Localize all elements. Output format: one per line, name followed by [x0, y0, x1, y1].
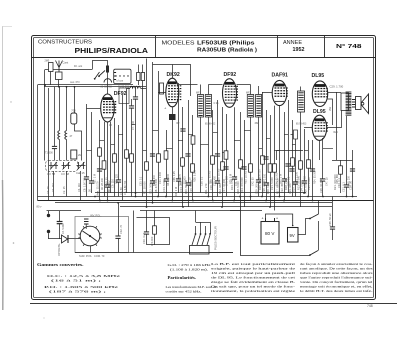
svg-text:de DL 95. Le fonctionnement: de DL 95. Le fonctionnement de cet — [211, 276, 295, 280]
svg-text:SUR. POS.: SUR. POS. — [79, 254, 92, 258]
svg-text:CV. 58: CV. 58 — [61, 172, 69, 176]
junction dot extra 5 — [221, 206, 223, 208]
svg-text:DK92: DK92 — [167, 72, 180, 78]
wire link 2 y140 — [100, 140, 105, 142]
header divider 2 — [277, 36, 279, 58]
svg-text:1952: 1952 — [293, 47, 305, 53]
svg-text:C3. 15: C3. 15 — [46, 186, 50, 194]
wire x133 down — [133, 211, 135, 253]
wire link 16 y148 — [259, 148, 262, 150]
capacitor CX9 — [350, 169, 355, 171]
wire x152 vertical — [150, 62, 155, 203]
svg-text:T1.600: T1.600 — [45, 152, 53, 155]
svg-text:2M: 2M — [78, 153, 82, 157]
wire T2s down — [256, 117, 261, 197]
wire tube6 grid left — [304, 127, 312, 129]
wire osc coil right stub — [140, 88, 146, 90]
wire CV1 down — [53, 171, 55, 197]
junction x135 y196 — [135, 196, 137, 198]
svg-text:C45. 0,1: C45. 0,1 — [287, 176, 290, 186]
wire x333 down right — [330, 197, 335, 241]
wire rail extension — [130, 86, 146, 88]
wire battery top link — [266, 214, 293, 226]
wire x99 vertical — [98, 120, 102, 201]
coil unit box — [114, 69, 131, 83]
wire x86 vertical — [84, 104, 89, 197]
wire x213 vertical — [211, 110, 215, 201]
header divider 1 — [155, 36, 157, 58]
wire switch right link — [209, 252, 233, 254]
svg-text:Fil. ant: Fil. ant — [74, 64, 82, 68]
wire x114 vertical — [113, 118, 117, 197]
svg-text:C6. 50: C6. 50 — [119, 187, 123, 195]
wire x178 vertical — [176, 83, 181, 193]
tube V4 DAF91 — [272, 73, 289, 106]
inner frame border — [34, 38, 374, 298]
resistor RX8 — [299, 161, 303, 169]
trimmer stack above commutator — [84, 219, 89, 229]
wire link 11 y145 — [201, 144, 209, 146]
wire contact4 up — [210, 222, 212, 234]
wire pot down — [293, 139, 298, 197]
capacitor CX11 — [223, 167, 228, 169]
svg-text:DF92: DF92 — [114, 91, 127, 97]
tuning gang CV dashed box — [46, 160, 78, 171]
svg-text:R8. 15.000: R8. 15.000 — [167, 173, 170, 186]
svg-text:19 cm est attaqué par un: 19 cm est attaqué par un push-pull — [211, 271, 295, 275]
switch contact x200 — [200, 233, 202, 235]
wire T3 top stub — [300, 87, 302, 92]
junction x166 y196 — [165, 196, 167, 198]
resistor RX7 — [268, 164, 272, 172]
wire tube5 screen down — [328, 99, 333, 125]
svg-text:80.98.304: 80.98.304 — [153, 175, 156, 186]
svg-text:tubes reproduit une alterna: tubes reproduit une alternance alors — [300, 271, 373, 275]
svg-text:C37. 25: C37. 25 — [189, 177, 192, 186]
junction x45 y85 — [44, 84, 46, 86]
switch contact x205 — [205, 233, 207, 235]
svg-text:Particularités.: Particularités. — [168, 275, 197, 280]
svg-text:C29. 1.700: C29. 1.700 — [330, 84, 344, 88]
wire T2p top — [250, 85, 252, 95]
wire contact1 up — [195, 226, 197, 234]
wire CT1 down — [80, 171, 82, 201]
wire x55 vertical — [52, 87, 57, 161]
svg-text:C35. 50 uF: C35. 50 uF — [328, 213, 332, 226]
wire x48 vertical — [48, 88, 50, 201]
svg-text:OXYMETAL: OXYMETAL — [58, 242, 61, 256]
svg-text:C9. 110: C9. 110 — [110, 179, 114, 188]
svg-text:R26. 5.000: R26. 5.000 — [194, 169, 197, 182]
svg-text:CONSTRUCTEURS: CONSTRUCTEURS — [38, 40, 92, 46]
svg-text:étage se fait évidemment en cl: étage se fait évidemment en classe B. — [211, 280, 295, 284]
band switch S1 arms — [94, 71, 105, 80]
junction dot extra 13 — [146, 206, 148, 208]
junction x208 y196 — [208, 196, 210, 198]
wire link 13 y152 — [222, 152, 226, 154]
wire diode right — [68, 238, 80, 240]
wire x352 right vertical — [352, 150, 354, 197]
wire T1 to tube3 — [208, 84, 222, 86]
junction x266 y200 — [265, 200, 267, 202]
scan speck 2 — [13, 242, 15, 244]
svg-text:COM. 70: COM. 70 — [94, 254, 105, 258]
svg-text:R36. 120: R36. 120 — [115, 173, 118, 184]
wire osc tap down — [133, 88, 138, 197]
page top edge — [3, 26, 13, 28]
trimmer CT1 — [77, 162, 86, 170]
junction dot extra 1 — [135, 192, 137, 194]
wire contact3 up — [205, 226, 207, 234]
output transformer OT — [341, 92, 351, 115]
wire x312 vertical — [312, 140, 314, 201]
wire bus y210 — [140, 210, 262, 212]
svg-text:R30. 25.000: R30. 25.000 — [244, 170, 247, 184]
wire link 12 y132 — [213, 132, 218, 134]
wire link 8 y148 — [166, 148, 172, 150]
svg-text:C49. 50: C49. 50 — [105, 177, 108, 186]
capacitor CX12 — [289, 169, 294, 171]
wire x308 vertical — [307, 140, 311, 197]
svg-text:1R: 1R — [109, 125, 112, 127]
svg-text:R24: R24 — [334, 132, 339, 134]
wire left bus x37 vertical — [37, 85, 39, 201]
junction x95 y196 — [94, 196, 96, 198]
svg-text:DL95: DL95 — [313, 109, 326, 115]
junction x352 y196 — [352, 196, 354, 198]
svg-text:700: 700 — [71, 109, 76, 113]
junction x346 y196 — [346, 196, 348, 198]
wire tube2 cathode down — [172, 107, 174, 201]
junction x234 y200 — [233, 200, 235, 202]
junction dot extra 6 — [239, 196, 241, 198]
svg-text:52.500: 52.500 — [184, 176, 187, 184]
wire T2p down — [250, 117, 252, 201]
resistor R1 700 — [71, 109, 77, 125]
switch contact x210 — [209, 233, 211, 235]
wire tube1 grid cap lead — [93, 61, 108, 95]
rectifier diode D1 — [62, 235, 69, 243]
wire x323 vertical — [320, 138, 325, 197]
wire commutator down — [90, 246, 92, 253]
wire x304 vertical — [302, 129, 307, 193]
svg-text:C44. 10.000: C44. 10.000 — [275, 172, 278, 186]
wire link 15 y130 — [244, 130, 251, 132]
chassis box around commutator — [75, 217, 129, 253]
wire tube2 grid left wire — [158, 92, 166, 94]
wire link 4 y135 — [119, 134, 124, 136]
svg-text:P.O. : 1.605 à 500 kHz: P.O. : 1.605 à 500 kHz — [44, 285, 119, 289]
junction dot extra 4 — [212, 200, 214, 202]
wire x146 vertical — [145, 59, 149, 208]
junction dot extra 7 — [261, 196, 263, 198]
wire x155 down — [153, 211, 157, 246]
junction x172 y200 — [171, 200, 173, 202]
wire link 7 y130 — [153, 130, 159, 132]
wire switch top rail — [196, 222, 211, 224]
wire battery loop left-bottom — [241, 197, 311, 256]
junction x312 y200 — [312, 200, 314, 202]
svg-text:(1.100 à 1.820 m).: (1.100 à 1.820 m). — [170, 267, 208, 271]
wire y151 link — [276, 150, 303, 152]
junction dot extra 3 — [182, 206, 184, 208]
svg-text:R32. 1 M: R32. 1 M — [279, 174, 282, 184]
junction dot extra 8 — [269, 206, 271, 208]
antenna leak resistor 2M5 — [45, 60, 54, 72]
resistor R6 — [141, 73, 144, 81]
junction x250 y196 — [250, 196, 252, 198]
switch contact x195 — [195, 233, 197, 235]
svg-text:R34. 50.000: R34. 50.000 — [313, 170, 316, 184]
svg-text:C41. 0,5: C41. 0,5 — [235, 176, 238, 186]
wire x217 vertical — [215, 100, 220, 197]
capacitor CX1 — [97, 169, 102, 171]
svg-text:C43. 2.000: C43. 2.000 — [263, 173, 266, 186]
wire T1s top — [208, 85, 210, 95]
junction x107 y200 — [107, 200, 109, 202]
svg-text:uf cos: uf cos — [117, 80, 124, 83]
wire link 21 y150 — [304, 150, 308, 152]
svg-text:C36. 0,25: C36. 0,25 — [173, 171, 176, 182]
wire hop arc — [104, 79, 112, 83]
svg-text:INV. POL.: INV. POL. — [90, 213, 102, 217]
page left edge — [2, 26, 4, 180]
wire T2s top stub — [258, 86, 260, 95]
svg-text:C4. 5.000: C4. 5.000 — [62, 223, 65, 234]
wire x262 vertical — [261, 92, 265, 197]
svg-text:R29. 3 M: R29. 3 M — [229, 174, 232, 184]
svg-text:R25. 3.300: R25. 3.300 — [179, 173, 182, 186]
svg-text:(187 à 576 m) ;: (187 à 576 m) ; — [49, 290, 106, 294]
wire C31 down — [118, 238, 120, 252]
tuning capacitor section CV1 — [49, 162, 58, 170]
svg-text:MF1: MF1 — [196, 92, 201, 95]
svg-text:PILES-SECTEUR: PILES-SECTEUR — [214, 225, 218, 250]
header bottom rule — [32, 57, 376, 59]
svg-text:C1. 110: C1. 110 — [51, 183, 55, 192]
svg-text:que l'autre reproduit l'altern: que l'autre reproduit l'alternance sui- — [300, 276, 373, 280]
wire OT down — [344, 116, 349, 197]
wire bus y193 — [95, 192, 306, 194]
volume potentiometer P1 — [291, 130, 298, 139]
svg-text:MODELES: MODELES — [162, 41, 196, 47]
wire bus to battery left — [230, 210, 240, 212]
wire x59 tuned circuit vertical — [58, 87, 60, 161]
switch lever right bottom — [310, 251, 318, 256]
svg-text:748: 748 — [367, 304, 373, 308]
resistor RX3 — [164, 151, 168, 159]
resistor RX4 — [191, 136, 195, 144]
svg-text:80 v: 80 v — [37, 205, 43, 209]
wire x276 stub down — [276, 151, 278, 160]
wire x288 vertical — [288, 100, 290, 193]
wire x166 vertical — [164, 130, 169, 197]
lever pivot bottom — [309, 254, 311, 256]
wire right lever2 up — [318, 221, 320, 251]
svg-text:81-58-301: 81-58-301 — [118, 86, 130, 89]
wire bottom y252 left — [75, 252, 233, 254]
svg-text:C46. 450: C46. 450 — [303, 175, 306, 186]
wire x131 vertical — [129, 99, 134, 197]
svg-text:R35. 680: R35. 680 — [336, 173, 339, 184]
wire switch rail up — [195, 211, 197, 223]
junction dot extra 14 — [152, 202, 154, 204]
wire x305 up right — [306, 219, 311, 236]
svg-text:80 V: 80 V — [265, 231, 275, 236]
wire y160 right horizontal — [332, 160, 353, 162]
wire x91 vertical — [89, 112, 94, 193]
svg-text:R27. 50.000: R27. 50.000 — [208, 170, 211, 184]
wire tube2 top — [172, 65, 174, 79]
svg-text:DAF91: DAF91 — [272, 73, 289, 79]
capacitor CX10 — [185, 154, 190, 156]
wire jack1 horizontal y211 — [47, 210, 82, 212]
wire y85 horizontal rail — [38, 84, 134, 86]
svg-text:+: + — [262, 217, 264, 221]
wire x123 vertical — [122, 95, 124, 201]
svg-text:C25. 2.200: C25. 2.200 — [307, 177, 311, 190]
resistor RX5 — [224, 151, 228, 159]
svg-text:osc. PO: osc. PO — [70, 80, 80, 84]
wire link 1 y150 — [87, 150, 92, 152]
svg-text:C2. 15: C2. 15 — [62, 186, 66, 194]
wire x274 vertical — [273, 106, 277, 211]
wire tube4 down — [279, 106, 281, 197]
wire x292 vertical — [291, 120, 295, 197]
wire top y62 to x190 down — [153, 65, 191, 97]
svg-text:R37. 1 M: R37. 1 M — [93, 174, 96, 184]
wire antenna top horizontal — [45, 69, 92, 71]
wire right lever up — [318, 201, 320, 215]
svg-text:80-98-458: 80-98-458 — [101, 86, 113, 89]
svg-text:3W: 3W — [328, 106, 332, 111]
capacitor CX6 — [263, 157, 268, 159]
svg-text:Gammes couvertes.: Gammes couvertes. — [37, 262, 84, 267]
svg-text:9V: 9V — [290, 233, 295, 238]
speaker coupling winding — [352, 100, 356, 108]
svg-text:C48. 200: C48. 200 — [347, 175, 350, 186]
loudspeaker LS — [356, 94, 369, 114]
svg-text:C13. 5.000: C13. 5.000 — [162, 179, 166, 192]
wire R6 top — [142, 65, 144, 73]
pickup jack J2 — [47, 230, 50, 239]
outer frame border — [32, 36, 376, 300]
wire x284 vertical — [282, 112, 287, 201]
battery B1 80V — [261, 217, 279, 245]
IF transformer T2 secondary — [256, 95, 262, 118]
IF transformer T1 primary — [198, 95, 204, 118]
svg-text:+: + — [276, 217, 278, 221]
wire tube6 down — [319, 140, 321, 160]
svg-text:R28. 15.000: R28. 15.000 — [217, 168, 220, 182]
tube V2 DK92 — [166, 72, 181, 107]
wire y87 horizontal rail — [44, 86, 133, 88]
wire R1 bottom corner — [75, 124, 82, 161]
wire C31 top — [118, 203, 120, 236]
junction dot extra 10 — [303, 192, 305, 194]
wire R5 top — [138, 65, 140, 73]
svg-text:C39. 450: C39. 450 — [213, 175, 216, 186]
wire left bus x45 vertical — [44, 70, 46, 161]
wire x222 vertical — [221, 107, 225, 207]
svg-text:C50. 0,1: C50. 0,1 — [139, 176, 142, 186]
oscillator coil former — [119, 88, 129, 104]
svg-text:C.95: C.95 — [214, 103, 220, 105]
wire x234 vertical — [232, 107, 237, 200]
junction x59 y87 — [58, 86, 60, 88]
wire link 10 y135 — [188, 134, 193, 136]
rotary commutator SW — [78, 226, 102, 246]
svg-text:C42. 50: C42. 50 — [251, 177, 254, 186]
pickup jack J1 — [47, 211, 50, 217]
capacitor CX5 — [241, 167, 246, 169]
wire R1 top — [74, 87, 76, 113]
junction dot extra 2 — [157, 196, 159, 198]
wire osc coil left stub — [127, 88, 130, 90]
wire x183 vertical — [181, 107, 185, 207]
wire R5 bottom — [138, 81, 140, 86]
svg-text:C33. 4 uF: C33. 4 uF — [142, 232, 146, 244]
wire link 5 y125 — [132, 124, 136, 126]
svg-text:80.98.452: 80.98.452 — [205, 124, 216, 126]
wire jack2 to diode — [49, 238, 62, 240]
svg-text:N° 748: N° 748 — [336, 44, 363, 50]
wire tube5 anode to OT — [328, 92, 341, 94]
wire link 18 y150 — [274, 150, 280, 152]
wire link 3 y145 — [111, 144, 115, 146]
capacitor C31 — [115, 236, 120, 238]
wire x111 vertical — [110, 122, 112, 193]
junction dot extra 12 — [117, 202, 119, 204]
svg-text:C26. 10.000: C26. 10.000 — [319, 178, 323, 193]
svg-text:de façon à annuler exactement: de façon à annuler exactement le cou- — [300, 262, 373, 266]
oscillator coil L2 — [130, 86, 140, 88]
capacitor C4 5000 — [57, 211, 63, 239]
scan speck 3 — [43, 317, 44, 318]
svg-text:RA305UB (Radiola ): RA305UB (Radiola ) — [197, 47, 257, 53]
wire x127 vertical — [125, 88, 129, 193]
capacitor CX4 — [215, 154, 220, 156]
lever pivot top — [309, 218, 311, 220]
IF transformer T3 — [298, 91, 305, 112]
svg-text:(16 à 51 m) ;: (16 à 51 m) ; — [51, 279, 101, 283]
junction x100 y200 — [99, 200, 101, 202]
scan speck 1 — [10, 101, 11, 102]
wire T1p top — [200, 85, 202, 95]
svg-text:C7. 300: C7. 300 — [131, 120, 135, 130]
svg-text:C14. 2.000: C14. 2.000 — [159, 171, 162, 184]
resistor RX2 — [130, 154, 134, 162]
wire link 20 y145 — [292, 144, 296, 146]
svg-text:R9. 1 M: R9. 1 M — [174, 187, 178, 196]
wire 9V right stub — [298, 234, 305, 236]
wire x240 vertical — [239, 112, 243, 197]
svg-text:le débit H.T. des deux tub: le débit H.T. des deux tubes est infé- — [300, 289, 373, 293]
capacitor CX7 — [285, 164, 290, 166]
wire x193 vertical — [191, 115, 195, 201]
tube V1 DF92 converter — [101, 91, 127, 122]
coil unit box ticks — [114, 73, 116, 80]
junction x279 y196 — [279, 196, 281, 198]
wire antenna coil down — [58, 80, 60, 87]
mains switch block S3 — [190, 234, 211, 254]
svg-text:MF2: MF2 — [246, 92, 251, 95]
svg-text:cordés sur 452 kHz.: cordés sur 452 kHz. — [166, 290, 202, 294]
wire x104 vertical — [104, 122, 106, 197]
svg-text:CV. 58: CV. 58 — [47, 172, 55, 176]
wire link 6 y150 — [143, 150, 147, 152]
wire bus y200 — [38, 200, 374, 202]
